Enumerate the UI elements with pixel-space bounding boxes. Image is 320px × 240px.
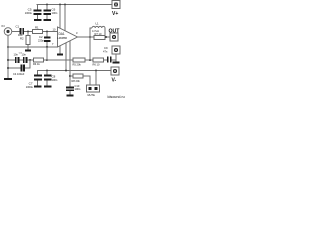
ground bar output [113,62,120,64]
svg-text:C6: C6 [52,8,56,12]
wire feedback bus [8,59,15,61]
node C2 tap [46,31,48,33]
svg-text:C7: C7 [29,82,33,86]
svg-text:C8: C8 [52,75,56,79]
node output junction [89,36,91,38]
ground bar under C6 [44,19,52,21]
wire R5 to output node [85,59,93,61]
wire feedback to R5 [47,59,73,61]
node branch left [7,67,9,69]
ground bar under R2 [25,50,31,52]
capacitor C6 plates [44,10,52,16]
wire inverting input drop [46,47,48,60]
svg-text:1000u: 1000u [25,11,33,15]
label C10 100n [75,84,81,91]
wire mute to R8 [70,75,73,77]
wire C9 to ground [112,59,117,61]
svg-text:R7 10: R7 10 [95,32,102,36]
label C6 100n [52,8,58,16]
resistor R7 [94,36,105,40]
svg-text:10n: 10n [14,53,19,57]
wire op-amp output [78,36,111,38]
terminal V- [111,67,119,75]
wire R2 to ground bus [27,45,29,50]
wire jack to C1 [12,31,20,33]
ground bar under C7 [34,86,42,88]
wire V- bottom rail [38,71,112,76]
resistor R4 [34,58,44,62]
capacitor C10 plates [66,87,74,92]
svg-text:C5: C5 [28,8,32,12]
op-amp DA1 triangle [58,27,78,47]
capacitor C8 lead [46,71,48,75]
resistor R1 [33,30,43,34]
resistor R8 [73,74,83,78]
svg-text:LM3886: LM3886 [57,36,67,40]
wire C1 to R1 [24,31,32,33]
wire V+ top rail [37,4,113,6]
svg-text:47n: 47n [103,50,108,54]
wire R8 to connector [83,76,90,85]
ground pin stub [59,46,61,54]
svg-text:10n: 10n [22,53,27,57]
svg-text:IN: IN [2,24,5,28]
wire mute pin down [69,41,71,87]
wire OUT return to ground [115,54,117,62]
capacitor C2 bottom lead [46,42,48,47]
capacitor C6 bottom lead [46,15,48,19]
wire R4 to feedback node [44,59,48,61]
capacitor C9 plates [107,57,112,63]
node mute wire junction [69,75,71,77]
inductor L1 [92,26,105,28]
ground bar under C10 [67,95,74,97]
capacitor C2 top lead [46,32,48,37]
svg-text:L1: L1 [96,22,100,26]
resistor R5 [73,58,85,62]
node rail pin5 [64,4,66,6]
capacitor C6 supply lead [46,5,48,11]
svg-text:100n: 100n [52,11,58,15]
node feedback junction [46,59,48,61]
capacitor C3b plates [23,57,27,63]
svg-text:V+: V+ [112,11,118,17]
svg-text:R5 20k: R5 20k [73,63,82,67]
node rail-C6 [46,4,48,6]
wire V+ to pin5 [64,5,66,31]
wire C3a to C3b [19,59,23,61]
wire output up to L1 [90,28,92,37]
node C4 branch [29,59,31,61]
node input junction [27,31,29,33]
label C5 1000u [25,8,33,16]
svg-text:R1: R1 [35,26,39,30]
capacitor C5 bottom lead [37,15,39,19]
ground bar jack [4,78,12,80]
svg-text:DA1: DA1 [59,32,65,36]
ground bar under C5 [34,19,42,21]
wire R6 to C9 [104,59,108,61]
wire junction to R2 [27,32,29,36]
node feedback left [7,59,9,61]
wire output node down [89,37,91,60]
wire rail to connector [95,71,97,86]
capacitor C7 bottom lead [37,81,39,86]
wire L1 down to output node [104,28,106,37]
svg-text:C9: C9 [104,46,108,50]
ground bar under C8 [44,86,52,88]
ground bar op-amp [57,54,63,56]
terminal OUT return [112,46,120,54]
node C2 ground junction [46,46,48,48]
capacitor C8 plates [44,75,52,81]
wire jack sleeve down [7,36,9,79]
label C8 100n [52,75,58,83]
wire V+ to pin1 [59,5,61,29]
svg-text:V-: V- [112,78,117,84]
connector SW mute [87,85,100,92]
node L1 R7 join [105,36,107,38]
terminal V+ [112,1,120,9]
wire low-pass branch [8,67,21,69]
svg-text:ldsound.ru: ldsound.ru [108,95,125,99]
wire C3b to R4 [27,59,33,61]
capacitor C5 supply lead [37,5,39,11]
label C7 1000u [26,82,34,90]
node rail pin1 [59,4,61,6]
svg-text:R8 20k: R8 20k [72,79,81,83]
terminal OUT hot [110,33,118,41]
capacitor C7 plates [34,75,42,81]
svg-text:C2: C2 [39,35,43,39]
wire ground bus [8,46,58,48]
svg-text:C1: C1 [16,25,20,29]
capacitor C1 plates [20,28,25,35]
svg-text:R4 1k: R4 1k [33,62,40,66]
svg-text:R2: R2 [20,37,24,41]
node jack sleeve junction [7,46,9,48]
capacitor C10 bottom lead [69,91,71,94]
resistor R2 [26,36,30,45]
wire V- pin down [65,43,67,71]
wire R1 to +input [43,31,58,33]
capacitor C4 plates [21,65,26,72]
wire C4 to corner [25,60,30,68]
svg-text:C4 100uF: C4 100uF [13,72,25,76]
svg-text:R6 10: R6 10 [93,63,100,67]
resistor R6 [93,58,104,62]
capacitor C5 plates [34,10,42,16]
svg-text:MUTE: MUTE [88,93,96,97]
input jack XS1 [4,28,12,36]
node rail-C7 [46,70,48,72]
capacitor C2 plates [44,37,51,43]
node Zobel junction [89,59,91,61]
svg-text:100n: 100n [75,87,81,91]
node rail connector [95,70,97,72]
svg-text:1000u: 1000u [26,85,34,89]
capacitor C3a plates [15,57,19,63]
svg-text:220p: 220p [38,39,44,43]
node rail V- pin [65,70,67,72]
capacitor C8 bottom lead [46,81,48,86]
svg-text:100n: 100n [52,78,58,82]
